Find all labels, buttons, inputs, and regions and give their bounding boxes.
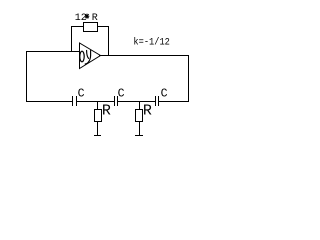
wire ladder segment 3 (C2 to C3 through node 2)	[118, 101, 155, 102]
value label C (C3)	[161, 87, 168, 100]
svg-text:R: R	[143, 102, 152, 119]
wire feedback top-right (resistor to right drop)	[97, 26, 109, 27]
value label C (C2)	[118, 87, 125, 100]
capacitor C3	[155, 96, 159, 106]
wire stub node 2 to R2	[139, 101, 140, 110]
capacitor C1	[72, 96, 77, 106]
wire stub node 1 to R1	[97, 101, 98, 110]
capacitor C2	[114, 96, 118, 106]
wire left vertical (input node down to ladder)	[26, 51, 27, 102]
resistor 12*R (feedback)	[84, 23, 98, 32]
wire feedback left vertical (down to op-amp input wire)	[71, 26, 72, 52]
svg-text:C: C	[78, 87, 85, 100]
resistor R2	[136, 110, 143, 122]
gain label k=-1/12	[133, 36, 170, 48]
wire op-amp input horizontal	[26, 51, 79, 52]
resistor R1	[95, 110, 102, 122]
svg-text:C: C	[161, 87, 168, 100]
wire R1 to ground	[97, 121, 98, 135]
value label 12*R	[75, 13, 98, 24]
wire ladder segment 2 (C1 to C2 through node 1)	[77, 101, 114, 102]
value label R (R1)	[102, 102, 111, 119]
svg-text:R: R	[102, 102, 111, 119]
op-amp U1	[80, 43, 101, 69]
wire op-amp output horizontal	[99, 55, 189, 56]
op-amp label О	[80, 51, 84, 62]
op-amp label У	[85, 51, 90, 65]
value label C (C1)	[78, 87, 85, 100]
wire right vertical (output down to ladder)	[188, 55, 189, 102]
ground (below R2)	[135, 135, 143, 136]
svg-text:k=-1/12: k=-1/12	[133, 36, 170, 48]
wire feedback top-left (left drop to resistor)	[71, 26, 84, 27]
svg-text:C: C	[118, 87, 125, 100]
ground (below R1)	[94, 135, 101, 136]
wire ladder segment 4 (C3 to right vertical)	[159, 101, 189, 102]
value label R (R2)	[143, 102, 152, 119]
wire feedback right vertical (down to op-amp output wire)	[108, 26, 109, 56]
wire R2 to ground	[139, 121, 140, 135]
wire ladder segment 1 (left vertical to C1)	[26, 101, 72, 102]
